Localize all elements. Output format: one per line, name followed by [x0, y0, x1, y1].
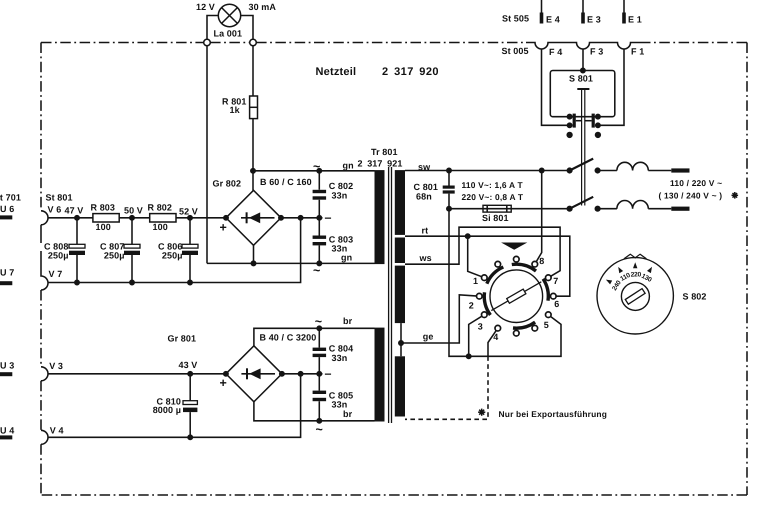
svg-text:V 3: V 3	[49, 361, 63, 371]
svg-text:br: br	[343, 409, 353, 419]
junction dot bridge bottom	[251, 261, 255, 265]
svg-text:1: 1	[473, 276, 478, 286]
junction dot C804/C805	[317, 372, 321, 376]
wire R801 to gn top wire	[252, 119, 254, 191]
node circle right on frame	[250, 39, 257, 46]
wire gn top (bridge top to transformer)	[253, 170, 375, 172]
svg-text:V 4: V 4	[50, 426, 64, 436]
wire Si801 fuse run	[449, 208, 570, 210]
frame border top solid section with St 005 socket bumps	[526, 43, 640, 50]
svg-text:2: 2	[469, 301, 474, 311]
capacitor C803 33n	[318, 218, 320, 264]
selector bridging arc right	[543, 279, 548, 301]
svg-text:~: ~	[313, 264, 321, 278]
S801 right contact group	[596, 114, 600, 118]
svg-text:S 802: S 802	[683, 291, 707, 301]
selector contact 1	[482, 275, 488, 281]
capacitor C806 250u	[189, 218, 191, 283]
junction dot Gr801 left vertex	[224, 372, 228, 376]
transformer core	[389, 167, 392, 423]
selector contact 6	[551, 293, 557, 299]
svg-text:~: ~	[315, 315, 323, 329]
junction dot C801 top	[447, 168, 451, 172]
svg-text:U 6: U 6	[0, 204, 14, 214]
selector rotor circle	[490, 270, 543, 323]
transformer right winding bottom segment	[395, 356, 405, 416]
svg-text:br: br	[343, 316, 353, 326]
S802 pointer mark 220	[633, 262, 637, 268]
svg-text:Netzteil: Netzteil	[316, 66, 357, 78]
svg-text:U 7: U 7	[0, 268, 14, 278]
svg-text:St 505: St 505	[502, 14, 529, 24]
svg-text:2 317 920: 2 317 920	[382, 66, 439, 78]
S802 pointer mark 110	[618, 267, 623, 273]
wire br top	[254, 328, 375, 346]
diode inside Gr801	[241, 373, 275, 375]
svg-text:F 3: F 3	[590, 47, 603, 57]
wire F3 to S801	[582, 49, 584, 71]
selector contact unnumbered	[514, 330, 520, 336]
junction dot contact 3 branch	[467, 354, 471, 358]
junction dot C808 bottom	[75, 280, 79, 284]
junction dot C805 bottom	[317, 419, 321, 423]
selector contact 7	[546, 275, 552, 281]
svg-text:gn: gn	[343, 160, 354, 170]
fuse Si801	[483, 205, 511, 212]
svg-text:U 3: U 3	[0, 360, 14, 370]
switch pole lower arm	[570, 197, 594, 209]
selector wiper slot	[507, 289, 526, 303]
svg-text:52 V: 52 V	[179, 206, 198, 216]
svg-text:33n: 33n	[332, 400, 348, 410]
wire F1 to S801	[600, 49, 624, 125]
transformer Tr 801 left winding lower (br)	[375, 328, 385, 422]
capacitor C805 33n	[318, 374, 320, 421]
svg-text:7: 7	[553, 276, 558, 286]
svg-text:50 V: 50 V	[124, 206, 143, 216]
S802 pointer mark 130	[647, 267, 652, 273]
junction dot C810 bottom	[188, 435, 192, 439]
junction dot switch/selector-8 branch	[540, 168, 544, 172]
wire rt to contact 1	[468, 236, 485, 278]
svg-text:–: –	[325, 366, 332, 380]
junction dot C807 bottom	[130, 280, 134, 284]
junction dot ge tap	[399, 341, 403, 345]
selector contact 2	[477, 293, 483, 299]
fuse symbol 1	[617, 162, 671, 170]
svg-text:St 701: St 701	[0, 192, 21, 202]
switch pole lower contact	[567, 206, 572, 211]
selector contact unnumbered	[495, 261, 501, 267]
selector contact unnumbered	[532, 325, 538, 331]
S801 left contact group	[567, 114, 571, 118]
wire Gr802 bottom vertex to gn bottom	[253, 245, 255, 263]
svg-text:E 1: E 1	[628, 14, 642, 24]
svg-text:V 6: V 6	[48, 205, 62, 215]
transformer right winding segment sw-rt	[395, 170, 405, 235]
wire rt run	[405, 236, 570, 296]
terminal bar U4	[0, 435, 12, 439]
svg-text:220 V~: 0,8 A T: 220 V~: 0,8 A T	[462, 192, 524, 202]
capacitor C810 8000u	[189, 374, 191, 438]
svg-text:B 60 / C 160: B 60 / C 160	[260, 177, 312, 187]
svg-text:33n: 33n	[332, 190, 348, 200]
terminal bar 130/240	[671, 207, 689, 211]
junction dot 50V	[130, 216, 134, 220]
wire V3 rail to bridge	[48, 373, 226, 375]
svg-text:100: 100	[96, 222, 111, 232]
svg-text:( 130 / 240 V ~ ): ( 130 / 240 V ~ )	[659, 191, 723, 201]
switch pole lower open contact	[595, 206, 600, 211]
svg-text:St 005: St 005	[502, 46, 529, 56]
svg-text:100: 100	[153, 222, 168, 232]
junction dot 47V	[75, 216, 79, 220]
switch pole upper open contact	[595, 168, 600, 173]
svg-text:Gr 802: Gr 802	[213, 179, 242, 189]
svg-text:8000 µ: 8000 µ	[153, 405, 181, 415]
S801 actuator shaft	[582, 89, 585, 206]
S802 screw slot	[625, 289, 645, 305]
svg-text:~: ~	[313, 160, 321, 174]
wire V6 rail to bridge	[48, 217, 226, 219]
svg-text:Nur bei Exportausführung: Nur bei Exportausführung	[499, 409, 608, 419]
svg-text:250µ: 250µ	[104, 251, 125, 261]
transformer Tr 801 left winding upper (gn)	[375, 170, 385, 264]
terminal bar 110/220	[671, 168, 689, 172]
svg-text:sw: sw	[418, 162, 431, 172]
node circle left on frame	[204, 39, 211, 46]
S802 pointer mark 240	[606, 280, 612, 285]
junction dot bridge left vertex	[224, 216, 228, 220]
svg-text:250µ: 250µ	[162, 251, 183, 261]
terminal bar U3	[0, 372, 12, 376]
wire fuse output to contacts 3 and 5	[449, 209, 561, 357]
junction dot C801 bottom	[447, 207, 451, 211]
S802 housing top notch	[624, 254, 646, 259]
svg-text:V 7: V 7	[49, 269, 63, 279]
svg-text:F 4: F 4	[549, 47, 562, 57]
svg-text:Gr 801: Gr 801	[168, 334, 197, 344]
transformer winding link with ge tap	[400, 323, 402, 356]
asterisk mark	[478, 409, 485, 416]
wire export option dashed	[405, 356, 488, 419]
svg-text:+: +	[220, 221, 228, 235]
junction dot Gr801 right vertex	[280, 372, 284, 376]
junction dot C804 top	[317, 326, 321, 330]
svg-text:~: ~	[316, 422, 324, 436]
selector wiper line	[491, 282, 541, 311]
svg-text:110 V~: 1,6 A T: 110 V~: 1,6 A T	[462, 180, 524, 190]
capacitor C804 33n	[318, 328, 320, 374]
wire switch junction to contact 8	[535, 171, 542, 265]
wire lamp-left vertical down to gn wire	[206, 46, 208, 264]
wire to contact 3	[469, 315, 485, 357]
junction dot C802/C803	[317, 216, 321, 220]
junction dot minus/V4	[298, 372, 302, 376]
wire lamp right loop	[241, 16, 253, 40]
wire sw top run	[405, 170, 570, 172]
selector bridging arc bottom	[513, 322, 535, 328]
svg-text:U 4: U 4	[0, 425, 14, 435]
selector pointer triangle	[501, 243, 527, 250]
connector St 505 pin E1	[623, 0, 625, 13]
svg-text:La 001: La 001	[214, 29, 243, 39]
capacitor C808 250u	[76, 218, 78, 283]
frame border top	[41, 42, 747, 44]
svg-text:47 V: 47 V	[65, 206, 84, 216]
transformer right winding segment rt-ws	[395, 238, 405, 264]
switch pole upper contact	[567, 168, 572, 173]
wire node right down to R801	[252, 46, 254, 96]
svg-text:E 4: E 4	[546, 14, 560, 24]
junction dot minus/V7	[298, 216, 302, 220]
transformer right winding segment ws down	[395, 266, 405, 324]
junction dot C806 bottom	[188, 280, 192, 284]
junction dot R801/bridge/gn	[251, 169, 255, 173]
resistor R802	[150, 214, 176, 222]
svg-text:rt: rt	[422, 226, 429, 236]
svg-text:110 / 220 V ~: 110 / 220 V ~	[670, 178, 722, 188]
svg-text:43 V: 43 V	[179, 360, 198, 370]
junction dot 43V/C810	[188, 372, 192, 376]
asterisk mark	[732, 192, 739, 199]
wire contact 4 lead	[488, 328, 498, 356]
svg-text:8: 8	[539, 256, 544, 266]
S801 actuator T-bar	[577, 88, 589, 90]
wire to fuse 1	[598, 170, 617, 172]
selector contact 8	[532, 261, 538, 267]
svg-text:Si 801: Si 801	[482, 213, 509, 223]
selector contact unnumbered	[514, 256, 520, 262]
terminal bar U6	[0, 215, 12, 219]
svg-text:6: 6	[554, 299, 559, 309]
switch S801 box	[550, 71, 615, 117]
svg-text:30 mA: 30 mA	[249, 2, 277, 12]
lamp La 001	[218, 4, 240, 26]
selector contact 5	[546, 312, 552, 318]
junction dot C803 bottom	[317, 261, 321, 265]
wire lamp left loop	[207, 16, 218, 40]
svg-text:68n: 68n	[416, 191, 432, 201]
junction dot rt/contact1	[466, 234, 470, 238]
svg-text:St 801: St 801	[46, 193, 73, 203]
svg-text:+: +	[220, 376, 228, 390]
svg-text:ws: ws	[419, 253, 432, 263]
wire F4 to S801	[542, 49, 568, 125]
svg-text:33n: 33n	[332, 353, 348, 363]
svg-text:3: 3	[478, 321, 483, 331]
svg-text:Tr 801: Tr 801	[371, 147, 398, 157]
wire to fuse 2	[598, 208, 617, 210]
frame border right	[746, 43, 748, 496]
svg-text:gn: gn	[341, 252, 352, 262]
junction dot C802 top	[317, 169, 321, 173]
frame border bottom	[41, 494, 747, 496]
svg-text:–: –	[325, 210, 332, 224]
S802 inner shaft circle	[621, 282, 649, 310]
selector bridging arc top-right	[512, 264, 536, 271]
selector bridging arc left	[484, 292, 490, 315]
wire Gr802 minus output	[281, 217, 323, 219]
svg-text:F 1: F 1	[631, 47, 644, 57]
wire ws run to contact 7	[405, 227, 560, 278]
junction dot 52V	[188, 216, 192, 220]
junction dot bridge right vertex	[279, 216, 283, 220]
fuse symbol 2	[617, 201, 671, 209]
capacitor C801 68n	[448, 171, 450, 209]
svg-text:B 40 / C 3200: B 40 / C 3200	[260, 332, 317, 342]
svg-text:2 317 921: 2 317 921	[358, 159, 403, 169]
svg-text:250µ: 250µ	[48, 251, 69, 261]
svg-text:R 802: R 802	[148, 203, 173, 213]
wire V7 return rail	[48, 218, 301, 283]
selector contact 4	[495, 325, 501, 331]
svg-text:12 V: 12 V	[196, 2, 215, 12]
svg-text:ge: ge	[423, 331, 434, 341]
wire ge run to contact 2	[401, 295, 479, 343]
wire gn bottom	[207, 262, 375, 264]
connector St 505 pin E3	[582, 0, 584, 13]
terminal bar U7	[0, 281, 12, 285]
junction dot F3 on S801	[581, 68, 585, 72]
wire Gr801 minus output	[282, 373, 323, 375]
connector St 505 pin E4	[541, 0, 543, 13]
diode inside Gr802	[241, 217, 275, 219]
wire br bottom	[254, 402, 375, 421]
capacitor C802 33n	[318, 171, 320, 218]
frame border left with V6 V7 V3 V4 socket bumps	[40, 43, 42, 211]
bridge rectifier Gr802 diamond	[226, 190, 281, 245]
resistor R801 1k	[250, 96, 258, 119]
svg-text:4: 4	[493, 332, 498, 342]
svg-text:1k: 1k	[230, 105, 241, 115]
wire V4 rail	[48, 374, 301, 438]
bridge rectifier Gr801 diamond	[226, 346, 282, 402]
svg-text:S 801: S 801	[569, 74, 593, 84]
svg-text:5: 5	[544, 320, 549, 330]
selector bridging arc upper-left	[487, 267, 504, 284]
svg-text:R 803: R 803	[91, 203, 116, 213]
selector contact 3	[482, 312, 488, 318]
svg-text:E 3: E 3	[587, 14, 601, 24]
resistor R803	[93, 214, 119, 222]
capacitor C807 250u	[131, 218, 133, 283]
switch pole upper arm	[570, 159, 594, 171]
selector S802 housing circle	[597, 258, 673, 334]
